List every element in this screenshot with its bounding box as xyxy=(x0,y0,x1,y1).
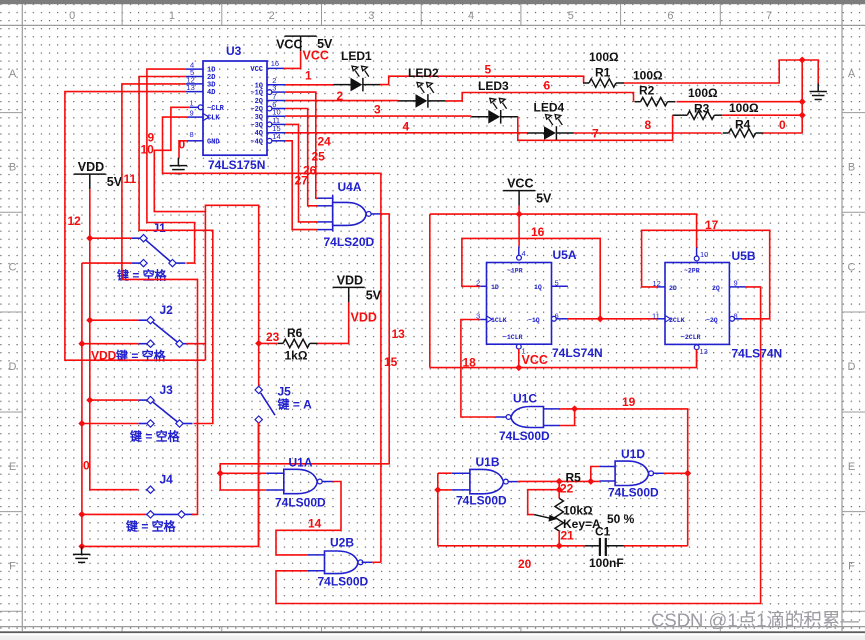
svg-text:74LS00D: 74LS00D xyxy=(318,575,369,589)
svg-text:20: 20 xyxy=(518,557,532,571)
svg-text:A: A xyxy=(848,68,856,80)
power symbol VCC middle xyxy=(503,191,535,206)
U4A gate body xyxy=(333,202,367,225)
svg-text:1Q: 1Q xyxy=(534,284,542,291)
U3 internal pin labels xyxy=(207,66,263,146)
svg-text:7: 7 xyxy=(766,10,772,22)
U3 pin number labels xyxy=(187,59,281,141)
svg-text:13: 13 xyxy=(700,347,708,356)
switch J2 key space xyxy=(139,320,193,344)
logic gate U1D 74LS00D xyxy=(615,461,649,485)
junction VCC net17 xyxy=(516,211,523,218)
svg-text:0: 0 xyxy=(69,10,75,22)
svg-text:~1Q: ~1Q xyxy=(528,317,540,324)
svg-text:1kΩ: 1kΩ xyxy=(285,349,308,363)
svg-text:~1PR: ~1PR xyxy=(507,268,523,275)
svg-text:2: 2 xyxy=(269,10,275,22)
svg-text:J5: J5 xyxy=(278,385,292,399)
wire net 15 clock from U2B to U3 CLK xyxy=(163,117,381,562)
svg-text:VCC: VCC xyxy=(250,66,263,74)
junction xyxy=(799,112,806,119)
wire to J2 top xyxy=(90,319,139,321)
junction xyxy=(684,470,691,477)
svg-text:2Q: 2Q xyxy=(712,285,720,292)
resistor R6 1k xyxy=(259,342,278,344)
svg-text:11: 11 xyxy=(124,172,137,186)
svg-text:E: E xyxy=(848,461,855,473)
U2B gate body xyxy=(325,551,359,574)
wire U1B inputs from rail 20 xyxy=(438,472,452,474)
wire net 10 U3 ~CLR to J2 xyxy=(154,107,205,360)
junction U1C inputs xyxy=(571,405,578,412)
svg-text:3: 3 xyxy=(368,10,374,22)
svg-text:R4: R4 xyxy=(735,118,751,132)
wire net 24 U3 pin3 to U4A xyxy=(285,92,317,198)
svg-text:1: 1 xyxy=(169,10,175,22)
svg-text:27: 27 xyxy=(295,174,309,188)
svg-text:R6: R6 xyxy=(287,326,303,340)
svg-text:74LS175N: 74LS175N xyxy=(208,158,265,172)
ground top right xyxy=(810,84,827,100)
U5B internal labels xyxy=(669,268,720,342)
svg-text:5V: 5V xyxy=(536,192,552,206)
svg-text:0: 0 xyxy=(179,138,186,152)
svg-text:VDD: VDD xyxy=(351,311,377,325)
svg-text:74LS20D: 74LS20D xyxy=(324,235,375,249)
junction feedback xyxy=(597,315,604,322)
svg-text:23: 23 xyxy=(266,330,280,344)
wire U1B out to U1D inputs xyxy=(518,480,599,482)
svg-text:6: 6 xyxy=(667,10,673,22)
svg-text:11: 11 xyxy=(652,311,660,320)
junction J2 pole xyxy=(86,317,93,324)
wire net J3 to U3 2D xyxy=(139,77,213,424)
svg-text:LED2: LED2 xyxy=(408,66,439,80)
svg-text:9: 9 xyxy=(190,109,194,118)
wire J2 bottom throw xyxy=(82,343,139,345)
junction xyxy=(556,478,563,485)
svg-text:16: 16 xyxy=(271,59,279,68)
svg-text:~2CLR: ~2CLR xyxy=(681,334,701,341)
ground bottom left xyxy=(73,546,90,562)
wire net17 left drop to rail 18 xyxy=(429,214,431,368)
resistor R2 100ohm xyxy=(635,101,641,103)
junction xyxy=(78,420,85,427)
svg-text:12: 12 xyxy=(68,214,82,228)
U3 ~CLR bubble and CLK triangle xyxy=(198,105,203,110)
svg-text:VDD: VDD xyxy=(78,160,104,174)
svg-text:U1C: U1C xyxy=(513,392,537,406)
wire U5A ~1CLR to rail xyxy=(518,349,520,368)
svg-text:100nF: 100nF xyxy=(589,556,624,570)
IC U5A 74LS74N body xyxy=(487,263,552,345)
wire U5A ~1Q to U5B 2CLK xyxy=(568,318,657,320)
wire J3 bottom throw xyxy=(82,423,139,425)
wire VDD trunk to switch poles xyxy=(90,189,139,490)
wire R5 wiper loop xyxy=(528,490,560,515)
LED4 diode xyxy=(527,126,574,140)
svg-text:VDD: VDD xyxy=(337,273,363,287)
wire VCC to U3 pin16 xyxy=(284,51,301,68)
svg-text:VCC: VCC xyxy=(522,353,548,367)
junction xyxy=(78,511,85,518)
svg-text:5: 5 xyxy=(555,279,559,288)
junction xyxy=(515,364,522,371)
wire net 8 LED3 to R3 xyxy=(518,115,673,140)
wire rail 20 right part xyxy=(624,545,688,547)
svg-text:E: E xyxy=(9,461,16,473)
svg-text:8: 8 xyxy=(190,130,194,139)
capacitor C1 100nF xyxy=(585,545,624,547)
svg-text:1D: 1D xyxy=(491,284,499,291)
svg-text:100Ω: 100Ω xyxy=(589,50,619,64)
svg-text:13: 13 xyxy=(187,83,195,92)
logic gate U1B 74LS00D xyxy=(470,469,504,493)
junction xyxy=(556,542,563,549)
wire net 17 rail xyxy=(430,214,697,247)
LED3 diode xyxy=(471,110,518,124)
wire net 16 VCC to U5A PR xyxy=(518,206,520,247)
svg-text:74LS00D: 74LS00D xyxy=(275,496,326,510)
wire U1C inputs tied xyxy=(560,409,575,426)
svg-text:CLK: CLK xyxy=(207,115,220,123)
svg-text:74LS00D: 74LS00D xyxy=(456,494,507,508)
U5A pin numbers xyxy=(476,249,559,356)
svg-text:4: 4 xyxy=(403,120,410,134)
U5A internal labels xyxy=(491,268,542,342)
svg-text:4: 4 xyxy=(468,10,474,22)
svg-text:~2Q: ~2Q xyxy=(250,106,263,114)
junction J3 pole xyxy=(86,397,93,404)
svg-text:B: B xyxy=(9,162,16,174)
svg-text:74LS74N: 74LS74N xyxy=(732,347,783,361)
wire U1D output to net 19 xyxy=(664,472,688,474)
svg-text:J3: J3 xyxy=(160,383,174,397)
wire net 4 U3 pin10 to LED3 xyxy=(285,115,471,117)
svg-text:4Q: 4Q xyxy=(255,130,263,138)
wire net 18 U5A 1CLK down xyxy=(461,320,496,418)
junction xyxy=(587,478,594,485)
wire rail 20 xyxy=(438,545,585,547)
svg-text:VCC: VCC xyxy=(276,38,302,52)
svg-text:U1D: U1D xyxy=(621,447,645,461)
wire net 3 U3 pin7 to LED2 xyxy=(285,100,399,102)
top window bar xyxy=(0,0,865,4)
svg-text:4: 4 xyxy=(522,249,526,258)
svg-text:~CLR: ~CLR xyxy=(207,105,225,113)
svg-text:5: 5 xyxy=(568,10,574,22)
bottom frame line xyxy=(0,631,865,633)
svg-text:J4: J4 xyxy=(160,473,174,487)
svg-text:~2PR: ~2PR xyxy=(684,268,700,275)
junction xyxy=(434,486,441,493)
switch J3 key space xyxy=(139,400,193,423)
svg-text:25: 25 xyxy=(312,150,326,164)
junction xyxy=(799,98,806,105)
svg-text:~1CLR: ~1CLR xyxy=(503,334,523,341)
wire J2 right throw to trunk xyxy=(186,343,205,345)
ground under U3 xyxy=(170,158,187,174)
svg-text:8: 8 xyxy=(645,118,652,132)
svg-text:D: D xyxy=(848,361,856,373)
switch J1 key space xyxy=(132,238,186,263)
svg-text:U5B: U5B xyxy=(732,249,756,263)
potentiometer R5 10k xyxy=(558,481,560,498)
IC U3 74LS175N body xyxy=(203,61,267,155)
junction R6-J5 xyxy=(255,340,262,347)
svg-text:50 %: 50 % xyxy=(607,512,635,526)
svg-text:键 = 空格: 键 = 空格 xyxy=(129,429,181,444)
svg-text:F: F xyxy=(9,560,16,572)
wire R3 out xyxy=(722,114,802,116)
wire net 13 U4A out to U1A inputs xyxy=(220,214,389,490)
svg-text:1: 1 xyxy=(190,99,194,108)
svg-text:2Q: 2Q xyxy=(255,98,263,106)
wire J1 bottom throw xyxy=(82,262,132,264)
svg-text:24: 24 xyxy=(318,135,332,149)
svg-text:10kΩ: 10kΩ xyxy=(563,504,593,518)
svg-text:6: 6 xyxy=(555,312,559,321)
svg-text:LED4: LED4 xyxy=(534,101,565,115)
LED1 diode xyxy=(334,78,381,92)
svg-text:J2: J2 xyxy=(160,303,174,317)
svg-text:LED1: LED1 xyxy=(341,49,372,63)
wire net 19 to U1D output xyxy=(575,409,688,546)
svg-text:~3Q: ~3Q xyxy=(250,122,263,130)
svg-text:13: 13 xyxy=(392,327,406,341)
svg-text:CSDN @1点1滴的积累—: CSDN @1点1滴的积累— xyxy=(651,610,859,631)
junction xyxy=(556,486,563,493)
wire U5A feedback ~1Q to 1D xyxy=(462,238,600,318)
svg-text:LED3: LED3 xyxy=(478,79,509,93)
wire net 11 J4 to U3 3D xyxy=(122,84,198,515)
junction xyxy=(799,56,806,63)
wire net 0 resistor outputs trunk xyxy=(801,60,803,133)
svg-text:2D: 2D xyxy=(669,285,677,292)
wire net 23 J5 trunk xyxy=(205,205,258,386)
wire net 26 U3 pin11 to U4A xyxy=(285,124,317,221)
svg-text:键 = 空格: 键 = 空格 xyxy=(125,519,177,534)
svg-text:22: 22 xyxy=(560,482,574,496)
svg-text:14: 14 xyxy=(272,132,280,141)
resistor R4 100ohm xyxy=(723,132,729,134)
svg-text:U1A: U1A xyxy=(289,456,313,470)
svg-text:键 = A: 键 = A xyxy=(277,397,313,412)
wire ground rail to J5 xyxy=(82,423,259,547)
junction J1 pole xyxy=(86,235,93,242)
svg-text:74LS74N: 74LS74N xyxy=(552,346,603,360)
wire U3 pin15 to LED4 xyxy=(285,132,527,134)
svg-text:15: 15 xyxy=(384,355,398,369)
wire U3 GND pin down xyxy=(179,141,188,158)
wire net 14 U1A out to U2B xyxy=(276,482,341,555)
svg-text:16: 16 xyxy=(531,225,545,239)
U5B pin numbers xyxy=(652,250,738,356)
svg-text:1CLK: 1CLK xyxy=(491,317,507,324)
svg-text:U2B: U2B xyxy=(330,536,354,550)
svg-text:10: 10 xyxy=(141,143,155,157)
wire net 7 LED4 to R4 xyxy=(574,132,721,134)
power symbol VDD left xyxy=(74,174,106,189)
wire U1A top input xyxy=(220,472,266,474)
resistor R1 100ohm xyxy=(583,82,589,84)
wire net 1 U3 pin2 to LED1 xyxy=(285,84,334,86)
resistor R3 100ohm x xyxy=(673,114,688,116)
svg-text:18: 18 xyxy=(463,356,477,370)
LED2 diode xyxy=(399,94,446,108)
U3 right pin stubs xyxy=(267,68,285,140)
svg-text:C: C xyxy=(9,261,17,273)
wire U5B ~2CLR to rail 18 xyxy=(696,349,698,366)
svg-text:1: 1 xyxy=(305,69,312,83)
wire net 27 U3 pin14 to U4A xyxy=(285,141,317,230)
wire R4 out xyxy=(763,132,802,134)
U3 left pin stubs xyxy=(186,69,203,141)
wire R2 out xyxy=(677,101,803,103)
svg-text:5V: 5V xyxy=(366,288,382,302)
svg-text:7: 7 xyxy=(592,126,599,140)
svg-text:GND: GND xyxy=(207,138,220,146)
svg-text:19: 19 xyxy=(622,395,636,409)
svg-text:14: 14 xyxy=(308,517,322,531)
svg-text:U1B: U1B xyxy=(476,455,500,469)
svg-text:100Ω: 100Ω xyxy=(633,69,663,83)
svg-text:74LS00D: 74LS00D xyxy=(608,486,659,500)
power symbol VCC top xyxy=(285,36,317,51)
logic gate U1C 74LS00D xyxy=(511,407,544,428)
logic gate U4A 74LS20D xyxy=(332,195,334,232)
svg-text:A: A xyxy=(9,68,17,80)
wire J4 bottom throw xyxy=(82,513,146,515)
wire ground trunk left xyxy=(81,263,83,546)
svg-text:B: B xyxy=(848,162,855,174)
wire to J1 top xyxy=(90,237,132,239)
wire net J1 to U3 1D xyxy=(147,69,195,263)
svg-text:21: 21 xyxy=(561,529,575,543)
svg-text:R3: R3 xyxy=(694,102,710,116)
svg-text:R1: R1 xyxy=(595,66,611,80)
svg-text:R2: R2 xyxy=(639,84,655,98)
svg-text:5: 5 xyxy=(485,63,492,77)
svg-text:5V: 5V xyxy=(107,175,123,189)
IC U5B 74LS74N body xyxy=(665,263,729,345)
svg-text:D: D xyxy=(9,361,17,373)
svg-text:键 = 空格: 键 = 空格 xyxy=(116,268,168,283)
svg-text:C: C xyxy=(848,261,856,273)
wire net 18 rail xyxy=(430,349,697,368)
U5A pin stubs xyxy=(480,246,568,319)
U5B pin stubs xyxy=(657,248,746,319)
wire VDD to R6 xyxy=(318,302,349,343)
junction xyxy=(78,340,85,347)
switch J4 key space xyxy=(146,490,195,515)
svg-text:3Q: 3Q xyxy=(255,114,263,122)
svg-text:100Ω: 100Ω xyxy=(729,101,759,115)
junction xyxy=(78,543,85,550)
wire net 6 LED2 to R2 xyxy=(445,93,634,102)
power symbol VDD middle xyxy=(333,287,365,302)
svg-text:100Ω: 100Ω xyxy=(688,86,718,100)
svg-text:10: 10 xyxy=(700,250,708,259)
wire J5 bottom to ground rail xyxy=(258,423,260,547)
svg-text:U5A: U5A xyxy=(553,248,577,262)
svg-text:6: 6 xyxy=(544,79,551,93)
wire to J3 top xyxy=(90,399,139,401)
R5 wiper arrow xyxy=(534,515,551,519)
svg-text:2CLK: 2CLK xyxy=(669,317,685,324)
svg-text:C1: C1 xyxy=(595,525,611,539)
svg-text:~4Q: ~4Q xyxy=(250,138,263,146)
junction U1A inputs xyxy=(217,470,224,477)
svg-text:9: 9 xyxy=(734,279,738,288)
svg-text:0: 0 xyxy=(83,459,90,473)
svg-text:~1Q: ~1Q xyxy=(250,90,263,98)
svg-text:VCC: VCC xyxy=(507,177,533,191)
svg-text:4D: 4D xyxy=(207,89,215,97)
svg-text:~2Q: ~2Q xyxy=(706,317,718,324)
wire U2B output xyxy=(372,561,381,563)
svg-text:U4A: U4A xyxy=(338,180,362,194)
svg-text:U3: U3 xyxy=(226,44,242,58)
svg-text:74LS00D: 74LS00D xyxy=(499,429,550,443)
wire net 5 LED1 to R1 xyxy=(380,76,584,84)
svg-text:VCC: VCC xyxy=(303,49,329,63)
svg-text:F: F xyxy=(848,560,855,572)
svg-text:0: 0 xyxy=(779,118,786,132)
wire U5B feedback ~2Q to 2D xyxy=(642,230,770,318)
svg-text:8: 8 xyxy=(734,311,738,320)
svg-text:3: 3 xyxy=(374,103,381,117)
U1A gate body xyxy=(284,469,318,493)
wire U2B bottom input loop to U5B 2Q xyxy=(276,287,761,604)
wire R1 output to ground xyxy=(624,60,818,84)
wire net 12 U3 4D to key row xyxy=(65,92,206,361)
switch J5 key A xyxy=(258,391,260,393)
wire net 25 U3 pin6 to U4A xyxy=(285,109,317,206)
